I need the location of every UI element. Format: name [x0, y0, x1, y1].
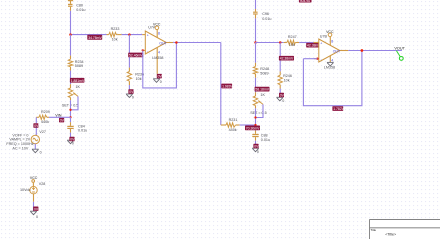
resistor R231 [221, 118, 240, 132]
voltage label 1.881mV [70, 78, 85, 83]
svg-text:R233: R233 [111, 27, 120, 31]
wire R233 to op-amp U7A + input [122, 34, 143, 36]
svg-text:5089: 5089 [75, 64, 83, 68]
svg-text:FREQ = 1000Hz: FREQ = 1000Hz [6, 142, 33, 146]
svg-text:0V: 0V [34, 207, 39, 211]
svg-text:VCC: VCC [153, 23, 161, 27]
svg-text:440k: 440k [41, 120, 49, 124]
svg-text:R209: R209 [41, 110, 50, 114]
voltage label 1.782V [332, 106, 344, 111]
node B junction [128, 33, 131, 36]
junction pot2 wiper [254, 116, 256, 118]
svg-text:VOFF = 0: VOFF = 0 [12, 133, 28, 137]
svg-text:0.01u: 0.01u [78, 129, 87, 133]
resistor R246 branch [278, 43, 292, 98]
wire U7B output [348, 50, 402, 52]
svg-text:4: 4 [331, 58, 333, 62]
wire U7A feedback [143, 43, 177, 88]
svg-text:0V: 0V [254, 145, 259, 149]
svg-text:58.18mV: 58.18mV [255, 88, 269, 92]
svg-text:<Title>: <Title> [385, 232, 396, 236]
svg-text:34.78mV: 34.78mV [88, 36, 102, 40]
capacitor C80 [68, 0, 86, 12]
wire pot2 wiper loop [256, 104, 264, 117]
potentiometer 1K (SET = 0.5) [62, 84, 81, 107]
voltage label 904.9u (top, cropped) [299, 0, 312, 3]
svg-text:0.01u: 0.01u [261, 138, 270, 142]
node C junction [254, 41, 257, 44]
svg-text:SET = 0.5: SET = 0.5 [250, 111, 266, 115]
svg-text:52.46mV: 52.46mV [129, 54, 143, 58]
probe marker VOUT [396, 51, 403, 61]
ground (U7B V-) [327, 62, 334, 66]
voltage label 0V at U7A V- [157, 74, 163, 79]
wire U7B - input left [303, 58, 317, 60]
voltage label 0V at V27 [33, 123, 39, 128]
svg-text:0.01u: 0.01u [262, 17, 271, 21]
svg-text:VIN: VIN [55, 113, 62, 117]
svg-text:440k: 440k [229, 128, 237, 132]
ground 0 (V28) [30, 211, 38, 219]
svg-text:C88: C88 [261, 134, 268, 138]
junction node D (R246 tap) [279, 41, 282, 44]
wire C80 to node A [70, 11, 72, 35]
svg-text:V28: V28 [39, 182, 46, 186]
voltage label 0V at R246 [279, 93, 285, 98]
resistor R209 [36, 110, 50, 124]
op-amp U7A [142, 26, 173, 74]
svg-text:0: 0 [282, 99, 284, 103]
wire R231 to node C [240, 124, 256, 126]
svg-text:8: 8 [158, 31, 160, 35]
wire node A to R233 [71, 34, 107, 36]
svg-text:0: 0 [132, 96, 134, 100]
svg-text:5089: 5089 [260, 72, 268, 76]
resistor R236 [127, 68, 144, 94]
svg-text:U7B: U7B [320, 35, 328, 39]
svg-text:42.38mV: 42.38mV [280, 57, 294, 61]
wire VIN [49, 116, 71, 118]
svg-text:R246: R246 [283, 74, 292, 78]
voltage label 58.18mV [255, 87, 270, 92]
svg-text:R247: R247 [288, 35, 297, 39]
svg-text:Title: Title [370, 228, 376, 232]
svg-text:LM358: LM358 [152, 56, 163, 60]
junction node VIN column [69, 116, 71, 118]
wire C96 to node C [255, 18, 257, 42]
svg-text:OUT: OUT [159, 41, 167, 45]
svg-text:0V: 0V [129, 90, 134, 94]
capacitor C84 [67, 117, 87, 140]
junction U7A output [175, 41, 178, 44]
voltage label 42.38mV (R246 top) [279, 56, 294, 61]
svg-text:C96: C96 [262, 12, 269, 16]
resistor R248 [253, 43, 269, 93]
svg-text:70.30mV: 70.30mV [246, 126, 260, 130]
resistor R234 [68, 35, 83, 85]
svg-text:+: + [147, 34, 149, 38]
svg-text:0.01u: 0.01u [76, 8, 85, 12]
VCC symbol (U7B) [326, 30, 334, 37]
svg-text:1.881mV: 1.881mV [71, 79, 85, 83]
junction U7B - input [316, 58, 318, 60]
svg-text:OUT: OUT [333, 49, 341, 53]
svg-text:0V: 0V [70, 138, 75, 142]
ground 0 (U7A V-) [153, 79, 162, 84]
svg-text:+: + [320, 42, 322, 46]
ground 0 (R246) [276, 97, 284, 103]
svg-text:10k: 10k [289, 43, 295, 47]
source V27 (VSIN) [6, 130, 46, 151]
svg-text:R248: R248 [260, 67, 269, 71]
svg-text:C80: C80 [76, 3, 83, 7]
capacitor C96 [253, 0, 271, 21]
svg-text:0: 0 [160, 80, 162, 84]
wire node B down to R236 [128, 35, 130, 68]
capacitor C88 [252, 131, 270, 149]
wire pot1 bottom [70, 100, 72, 117]
wire U7A output [173, 42, 221, 44]
wire R247 to U7B + input [299, 42, 313, 44]
junction node C2 [254, 124, 256, 126]
voltage label 0V at VIN [59, 118, 65, 123]
svg-text:904.9u: 904.9u [300, 0, 310, 3]
svg-text:LM358: LM358 [324, 65, 335, 69]
voltage label 1.989V [221, 84, 233, 89]
wire U7A output down [220, 43, 222, 126]
ground 0 (C84) [67, 140, 74, 145]
svg-text:0: 0 [72, 141, 74, 145]
svg-text:0V: 0V [158, 75, 163, 79]
svg-text:10k: 10k [136, 77, 142, 81]
svg-text:4: 4 [158, 50, 160, 54]
svg-text:0V: 0V [34, 124, 39, 128]
node A junction [69, 33, 72, 36]
ground 0 (R236) [126, 94, 134, 100]
svg-text:0: 0 [36, 215, 38, 219]
voltage label 42.38mV (+ input) [306, 43, 321, 48]
voltage label 70.30mV [245, 126, 260, 131]
voltage label 0V at C88 [253, 144, 259, 149]
wire V27 to ground [34, 144, 36, 150]
potentiometer 1K (SET = 0.5) stage 2 [250, 92, 266, 115]
op-amp U7B [314, 35, 349, 70]
source V28 (VDC 10Vdc) [20, 182, 45, 194]
wire U7B feedback [303, 51, 362, 106]
svg-text:0: 0 [40, 151, 42, 155]
svg-text:10k: 10k [112, 38, 118, 42]
wire V28 to ground [33, 194, 35, 202]
svg-text:VCC: VCC [326, 30, 334, 34]
svg-text:AC = 10V: AC = 10V [12, 147, 28, 151]
junction pot1 wiper [69, 109, 71, 111]
svg-text:1K: 1K [76, 85, 81, 89]
ground 0 (V27) [32, 149, 42, 154]
junction U7A - input [142, 49, 144, 51]
junction U7B output [361, 49, 364, 52]
wire node C to R247 [256, 42, 284, 44]
resistor R247 [284, 35, 299, 47]
wire R209 to V27 [35, 117, 37, 123]
svg-text:0V: 0V [280, 94, 285, 98]
VCC supply symbol [30, 176, 38, 187]
svg-text:1.989V: 1.989V [222, 85, 233, 89]
svg-text:R231: R231 [229, 118, 238, 122]
voltage label 0V at V28 [33, 207, 39, 212]
VCC symbol (U7A) [153, 23, 161, 30]
svg-text:0V: 0V [60, 119, 65, 123]
svg-text:V27: V27 [39, 130, 46, 134]
resistor R233 [107, 27, 122, 42]
voltage label 52.46mV [128, 53, 143, 58]
svg-text:VOUT: VOUT [394, 47, 405, 51]
voltage label 0V at C84 [69, 137, 75, 142]
svg-text:10k: 10k [284, 79, 290, 83]
ground 0 (C88) [252, 148, 259, 154]
svg-text:1.782V: 1.782V [333, 107, 344, 111]
voltage label 0V at R236 [128, 89, 134, 94]
svg-text:1K: 1K [260, 93, 265, 97]
wire pot2 bottom [255, 108, 257, 130]
svg-text:8: 8 [331, 39, 333, 43]
voltage label 34.78mV [87, 35, 102, 40]
svg-text:10Vdc: 10Vdc [20, 188, 31, 192]
svg-text:0: 0 [257, 150, 259, 154]
wire pot1 wiper loop [71, 96, 79, 109]
svg-text:VAMPL = 2V: VAMPL = 2V [9, 138, 30, 142]
